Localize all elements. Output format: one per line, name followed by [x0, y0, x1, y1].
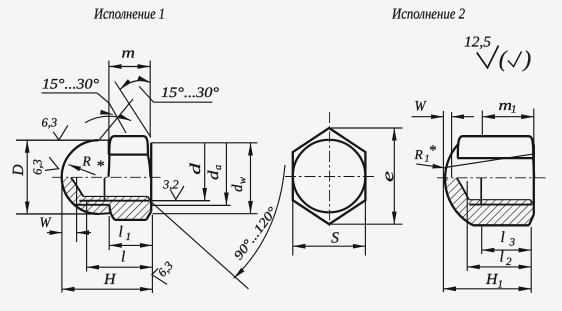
svg-text:R: R	[82, 154, 92, 169]
label R* with leader	[68, 165, 95, 175]
S extension right	[364, 200, 366, 255]
thread thin line v2	[469, 199, 531, 201]
bottom flat v2	[473, 224, 529, 226]
svg-text:6,3: 6,3	[31, 159, 45, 175]
l left extension	[86, 200, 88, 272]
dome arc R1	[445, 144, 473, 226]
d_a arrow	[225, 143, 227, 205]
S extension left	[292, 200, 294, 255]
svg-text:e: e	[380, 171, 397, 182]
bottom barrel corner arc	[109, 205, 114, 220]
hex face edge	[109, 154, 148, 156]
bore major line v2	[469, 204, 532, 206]
svg-text:d: d	[188, 162, 204, 174]
chamfer slant line B	[97, 93, 126, 133]
hatch section lower half v2	[445, 179, 534, 226]
svg-text:d: d	[206, 170, 222, 180]
svg-text:l: l	[121, 249, 125, 266]
W dimension arrows	[47, 232, 62, 234]
W right extension	[76, 178, 78, 243]
svg-text:D: D	[10, 164, 27, 176]
svg-text:(: (	[499, 47, 508, 72]
svg-text:*: *	[429, 143, 437, 159]
l3 left extension	[481, 227, 483, 255]
countersink slant	[148, 196, 152, 202]
l1 left extension	[108, 216, 110, 250]
svg-text:*: *	[96, 158, 104, 175]
hex mid face right side	[148, 155, 151, 177]
l2 dimension	[467, 266, 531, 268]
W right extension v2	[451, 112, 453, 177]
svg-text:Исполнение 2: Исполнение 2	[391, 7, 465, 23]
right 15-30 label leader	[139, 86, 212, 102]
d_a line extension	[151, 204, 230, 206]
hatch section lower half	[62, 178, 151, 219]
svg-text:S: S	[331, 230, 339, 247]
svg-text:R: R	[414, 147, 424, 162]
face corner arc v2	[530, 136, 534, 145]
upper barrel v2	[458, 136, 533, 158]
face vertical v2	[533, 145, 535, 215]
svg-text:W: W	[415, 99, 428, 115]
svg-text:l: l	[500, 249, 504, 266]
svg-text:m: m	[122, 46, 136, 62]
bottom flat	[115, 219, 147, 221]
svg-text:3: 3	[509, 237, 516, 249]
chamfer slant line A	[115, 82, 151, 138]
thread end vertical	[104, 178, 106, 201]
H dimension	[62, 288, 152, 290]
l2 left extension	[466, 181, 468, 271]
nut right face	[150, 143, 152, 212]
e dimension	[393, 128, 395, 224]
dome arc outline	[62, 140, 99, 214]
R1 radius line	[445, 154, 534, 168]
S dimension	[293, 245, 366, 247]
W left extension / H left extension	[61, 185, 63, 293]
R1 leader	[416, 164, 445, 168]
l3 dimension	[482, 249, 532, 251]
curved angle arrow C2	[85, 116, 131, 122]
dimension m extension right	[149, 61, 151, 138]
W dimension arrows v2	[412, 116, 444, 118]
right extension v2	[530, 227, 532, 293]
thread thin line	[83, 195, 148, 197]
svg-text:H: H	[485, 271, 498, 288]
m1 right extension	[533, 109, 535, 145]
thread end vertical v2	[480, 178, 482, 205]
left 15-30 label underline	[42, 92, 98, 94]
small check	[508, 52, 522, 67]
inner cap arc v2	[457, 178, 469, 200]
C2 mid arrowhead	[105, 113, 113, 115]
face edge v2	[457, 157, 533, 159]
svg-text:H: H	[103, 271, 116, 288]
countersink slant v2	[530, 200, 534, 206]
d_w bottom extension	[153, 213, 258, 215]
W/H1 left extension v2	[442, 111, 444, 292]
chamfer generator line2	[100, 99, 134, 140]
svg-text:w: w	[238, 177, 249, 184]
d line extension	[151, 200, 210, 202]
axis centerline v2	[437, 177, 548, 179]
roughness check 3,2	[171, 186, 184, 199]
svg-text:6,3: 6,3	[42, 116, 58, 130]
big check	[477, 46, 499, 68]
label da	[206, 165, 224, 180]
svg-text:3,2: 3,2	[162, 177, 179, 191]
dimension D line	[26, 140, 28, 214]
svg-text:6,3: 6,3	[155, 259, 176, 280]
90..120 leader	[152, 202, 249, 289]
svg-text:l: l	[501, 229, 505, 246]
svg-text:W: W	[40, 215, 53, 231]
right extension line	[151, 215, 153, 294]
H1 dimension	[443, 288, 531, 290]
m1 dimension	[482, 116, 534, 118]
hexagon	[293, 128, 366, 224]
washer chamfer v2	[529, 214, 534, 225]
svg-text:12,5: 12,5	[464, 35, 492, 51]
svg-text:d: d	[230, 184, 246, 192]
roughness check on dome	[45, 157, 59, 170]
svg-text:l: l	[119, 224, 123, 241]
D extension bottom	[16, 213, 99, 215]
svg-text:1: 1	[498, 279, 504, 291]
d_w arrow	[250, 143, 252, 214]
dimension m extension left	[108, 61, 110, 140]
svg-text:): )	[522, 47, 532, 72]
svg-text:1: 1	[126, 231, 132, 243]
chamfer circle	[293, 140, 366, 213]
m1 left extension	[481, 111, 483, 137]
roughness check on extension	[152, 268, 167, 284]
label dw	[230, 177, 249, 192]
svg-text:a: a	[213, 165, 224, 170]
d arrow	[204, 143, 206, 200]
curved angle arrow C1	[120, 80, 150, 89]
l dimension	[87, 266, 153, 268]
hex left edge	[108, 140, 110, 154]
vertical centerline	[329, 112, 331, 228]
d_w top extension	[151, 142, 257, 144]
inner cap arc	[71, 178, 83, 197]
svg-text:1: 1	[511, 104, 517, 116]
dimension m line	[109, 66, 150, 68]
svg-text:15°...30°: 15°...30°	[42, 77, 99, 93]
dome top tangent / D extension top	[16, 139, 111, 141]
hex upper barrel	[109, 136, 148, 155]
90..120 arc	[234, 165, 285, 278]
svg-text:Исполнение 1: Исполнение 1	[93, 7, 165, 23]
axis centerline	[52, 176, 163, 178]
l1 dimension	[109, 244, 152, 246]
sphere-flat edge in section	[74, 204, 109, 206]
bottom silhouette line	[99, 212, 111, 215]
bore major line d	[79, 200, 149, 202]
mid face right slant v2	[533, 158, 534, 178]
e bottom extension	[331, 223, 403, 225]
hex mid face left side	[107, 155, 110, 177]
horizontal centerline	[285, 176, 374, 178]
svg-text:15°...30°: 15°...30°	[161, 85, 219, 101]
roughness check top left	[53, 125, 68, 140]
washer chamfer bottom right	[146, 211, 151, 220]
e top extension	[331, 127, 403, 129]
svg-text:2: 2	[506, 256, 512, 268]
